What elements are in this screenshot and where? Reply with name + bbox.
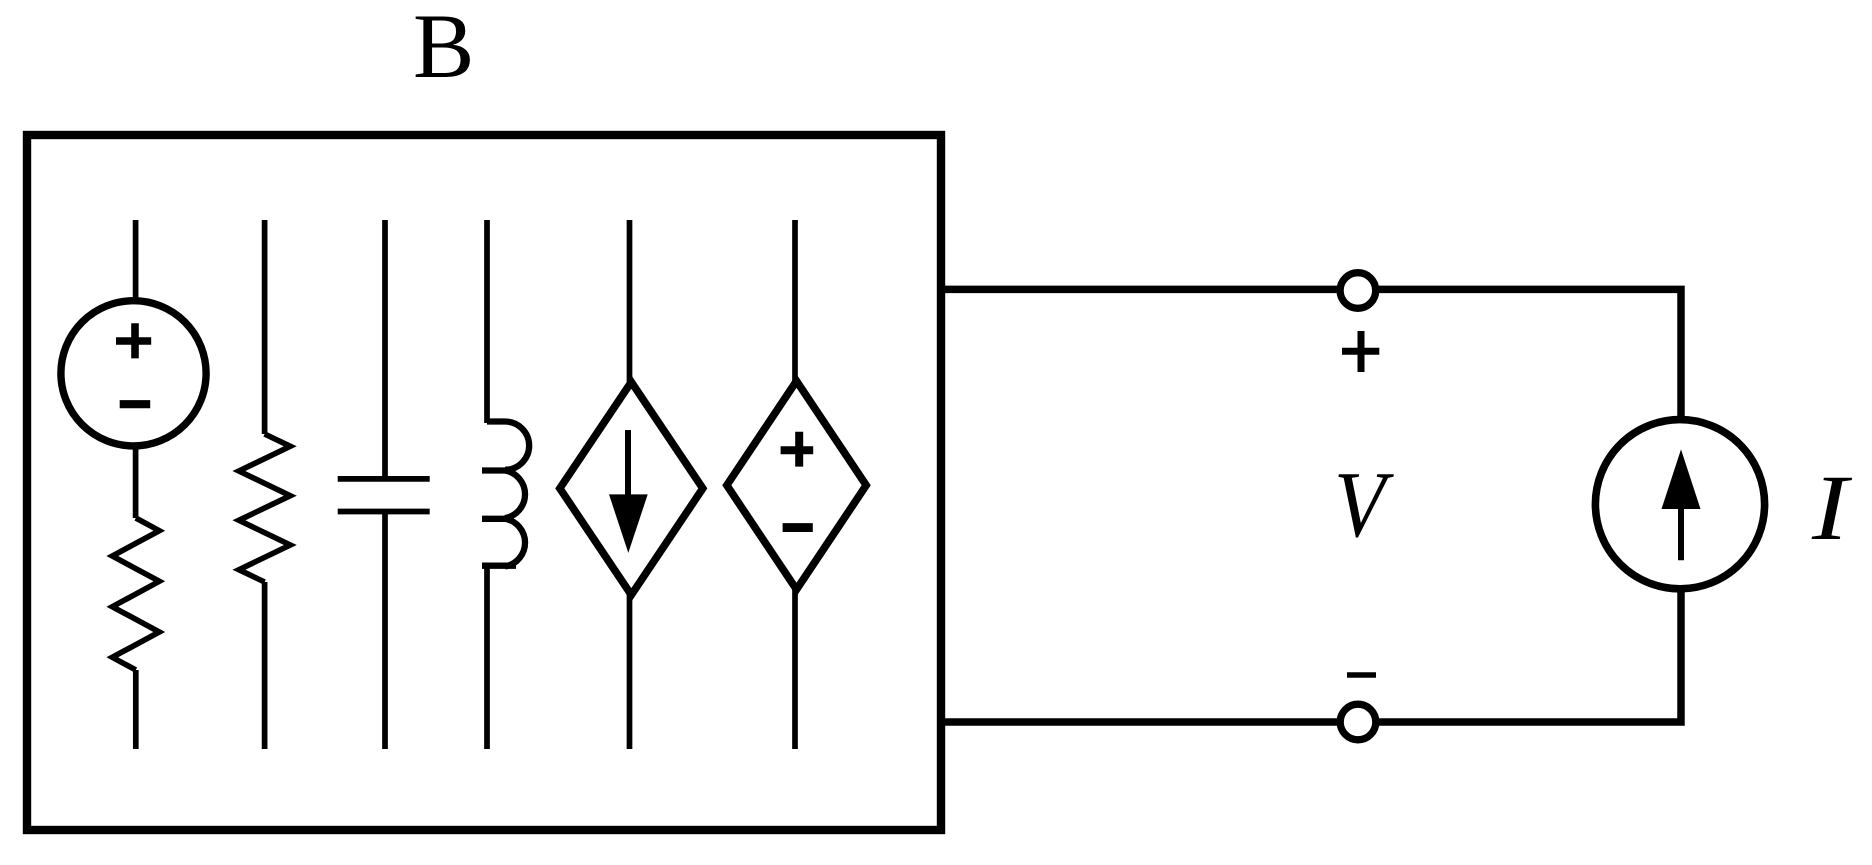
capacitor C bottom plate: [338, 509, 430, 515]
wire branch 3 top: [382, 220, 388, 479]
wire branch 4 bottom: [484, 564, 490, 749]
resistor R (branch 2): [239, 434, 290, 582]
independent voltage source (circle) branch 1: [61, 301, 206, 446]
minus label at bottom terminal: [1347, 672, 1376, 678]
arrow (up) inside current source: [1678, 505, 1684, 560]
svg-text:V: V: [1334, 453, 1395, 557]
arrow (down) inside dependent current source: [625, 430, 631, 497]
wire branch 1 bottom: [133, 670, 139, 749]
plus sign inside voltage source: [116, 323, 151, 358]
wire branch 6: [792, 220, 798, 749]
top output wire, right vertical wire and bottom output wire: [940, 289, 1681, 722]
top terminal (open circle): [1340, 273, 1376, 309]
minus sign inside dependent source: [783, 523, 813, 532]
wire branch 4 top: [484, 220, 490, 423]
bottom terminal (open circle): [1340, 704, 1376, 740]
plus label at top terminal: [1342, 331, 1379, 372]
wire branch 2 top: [262, 220, 268, 434]
capacitor C top plate: [338, 476, 430, 482]
independent current source I (circle): [1595, 420, 1764, 589]
dependent current source (diamond) branch 5: [560, 382, 703, 595]
inductor L coil (3 semicircle bumps with horizontal leads): [482, 422, 529, 567]
minus sign inside voltage source: [120, 400, 151, 408]
dependent voltage source (diamond) branch 6: [727, 381, 866, 590]
svg-text:B: B: [413, 0, 474, 97]
svg-text:I: I: [1811, 456, 1853, 559]
wire branch 3 bottom: [382, 512, 388, 750]
resistor R (branch 1, below source): [112, 518, 159, 670]
plus sign inside dependent source: [781, 432, 814, 467]
wire branch 1 top: [133, 220, 139, 518]
box B (network outline): [27, 135, 941, 830]
wire branch 2 bottom: [262, 582, 268, 749]
wire branch 5: [627, 220, 633, 749]
